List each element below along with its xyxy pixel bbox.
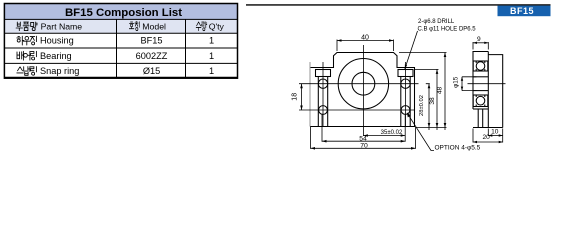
bearing top ball xyxy=(476,62,485,71)
table row line 1 xyxy=(4,18,237,20)
side plate top and right edge xyxy=(488,55,502,128)
BF15 blue label box xyxy=(498,6,551,17)
svg-text:6002ZZ: 6002ZZ xyxy=(136,51,168,61)
arrows phi15 xyxy=(461,77,463,91)
svg-text:2-φ6.8 DRILL: 2-φ6.8 DRILL xyxy=(418,19,455,25)
arrows dim9 xyxy=(473,42,488,44)
dim 35 line xyxy=(363,135,405,137)
bearing top rect xyxy=(473,61,488,71)
ext tick y83.7 right xyxy=(415,83,430,85)
svg-text:48: 48 xyxy=(436,87,443,95)
bore bottom edge xyxy=(473,90,488,92)
left slot boss rect xyxy=(316,70,331,77)
svg-text:Snap ring: Snap ring xyxy=(40,66,79,76)
svg-text:1: 1 xyxy=(209,66,214,76)
dim 40 line xyxy=(337,40,394,42)
svg-text:28±0.02: 28±0.02 xyxy=(419,95,425,116)
table row line 4 xyxy=(4,62,237,64)
arrows dim48 xyxy=(444,53,447,128)
svg-text:Ø15: Ø15 xyxy=(143,66,160,76)
left lower option hole xyxy=(319,106,328,115)
svg-text:BF15: BF15 xyxy=(510,6,534,16)
table bottom border extra xyxy=(4,76,237,78)
right lower option hole xyxy=(401,106,410,115)
dim 48 line xyxy=(444,53,446,131)
dim 10 line xyxy=(488,135,502,137)
svg-text:C.B φ11 HOLE DP6.5: C.B φ11 HOLE DP6.5 xyxy=(418,27,477,33)
bearing bottom rect xyxy=(473,95,488,107)
dim 20 line xyxy=(473,141,503,143)
arrows dim35 xyxy=(363,134,405,137)
ext tick y69.4 right xyxy=(415,68,439,70)
bore inner circle xyxy=(352,72,375,95)
side arrowheads xyxy=(461,42,503,144)
ext line x405.2 down xyxy=(404,115,406,142)
ext line x415.5 down xyxy=(415,127,417,149)
ext line x322 down xyxy=(321,115,323,142)
hangul 스냅링 (row3) xyxy=(17,67,37,76)
dim 9 line xyxy=(473,42,488,44)
dim 18 line xyxy=(301,84,303,110)
svg-text:10: 10 xyxy=(491,128,499,135)
svg-text:BF15 Composion List: BF15 Composion List xyxy=(65,7,182,19)
svg-text:Q'ty: Q'ty xyxy=(209,22,225,32)
arrowheads front dims xyxy=(300,39,446,149)
side centerline xyxy=(468,83,506,85)
dim 70 line xyxy=(311,147,416,149)
svg-text:9: 9 xyxy=(477,36,481,43)
side plate boundary vertical xyxy=(487,52,489,128)
hangul 부품명 (header col1) xyxy=(16,22,37,31)
arrows dim38 xyxy=(436,69,439,127)
svg-text:70: 70 xyxy=(360,143,368,150)
right upper hole xyxy=(401,79,410,88)
ext tick bottom right xyxy=(417,127,447,129)
bore top edge xyxy=(473,76,488,78)
boss bottom line xyxy=(473,108,488,110)
svg-text:BF15: BF15 xyxy=(141,36,163,46)
option leader xyxy=(407,113,434,151)
arrows dim20 xyxy=(473,141,503,143)
svg-text:Model: Model xyxy=(142,22,166,32)
svg-text:Bearing: Bearing xyxy=(40,51,72,61)
arrows dim18 xyxy=(300,84,303,110)
bearing top races xyxy=(476,61,485,71)
hangul 하우징 (row1) xyxy=(17,36,37,45)
ext line x310.5 down xyxy=(310,127,312,149)
ext tick y52.5 right xyxy=(399,52,447,54)
right slot boss rect xyxy=(398,70,413,77)
dim phi15 line xyxy=(461,77,463,91)
svg-text:φ15: φ15 xyxy=(452,76,459,88)
arrows dim54 xyxy=(322,140,405,143)
svg-text:1: 1 xyxy=(209,51,214,61)
table title row background xyxy=(4,4,237,20)
side boss left and top edge xyxy=(473,52,488,110)
drill note leader xyxy=(405,31,418,69)
table row line 3 xyxy=(4,47,237,49)
dim phi15 ticks xyxy=(462,77,477,91)
arrows dim28 xyxy=(428,84,431,128)
horizontal centerline upper xyxy=(299,83,414,85)
table column line 1 xyxy=(116,19,118,78)
svg-text:Housing: Housing xyxy=(40,36,74,46)
left upper hole xyxy=(318,79,327,88)
dim 40 extension lines xyxy=(337,40,394,52)
side bottom edge xyxy=(473,127,503,129)
arrow option leader xyxy=(407,113,411,118)
dim 28 line xyxy=(428,84,430,130)
hangul 수량 (header col3) xyxy=(196,22,207,31)
horizontal centerline lower holes xyxy=(299,109,414,111)
right slot centerline xyxy=(405,62,407,127)
arrows dim70 xyxy=(311,147,416,150)
svg-text:18: 18 xyxy=(292,93,299,101)
left slot walls xyxy=(318,77,327,127)
arrow drill leader xyxy=(405,64,407,69)
svg-text:35±0.02: 35±0.02 xyxy=(381,130,403,136)
table header row background xyxy=(4,19,237,33)
housing outline (top and right, bottom) xyxy=(310,53,415,127)
arrows dim40 xyxy=(337,39,394,42)
dim 54 line xyxy=(322,140,405,142)
svg-text:OPTION 4-φ5.5: OPTION 4-φ5.5 xyxy=(435,145,481,152)
hangul 호칭 (header col2) xyxy=(129,22,139,31)
dim 9 ext xyxy=(473,42,488,50)
svg-text:38: 38 xyxy=(429,97,436,105)
svg-text:Part Name: Part Name xyxy=(41,22,83,32)
housing left edge (gray) xyxy=(309,62,311,127)
left slot centerline xyxy=(322,62,324,127)
table row line 2 xyxy=(4,32,237,34)
bearing bottom races xyxy=(476,95,485,107)
table BF15 composition list xyxy=(4,4,237,79)
svg-text:1: 1 xyxy=(209,36,214,46)
arrows dim10 xyxy=(488,134,502,136)
dim 20 ext xyxy=(473,129,503,143)
hangul 베어링 (row2) xyxy=(17,51,36,60)
bore outer circle xyxy=(338,58,388,108)
table outer border xyxy=(4,4,237,79)
svg-text:54: 54 xyxy=(359,135,367,142)
dim 38 line xyxy=(436,69,438,130)
vertical centerline main xyxy=(362,45,364,136)
base inner verticals xyxy=(478,109,483,128)
top horizontal rule xyxy=(246,4,551,6)
svg-text:20: 20 xyxy=(483,134,491,141)
table column line 2 xyxy=(185,19,187,78)
bearing bottom ball xyxy=(476,96,485,105)
right slot walls xyxy=(401,77,410,127)
dim 10 ext xyxy=(488,129,502,137)
svg-text:40: 40 xyxy=(361,34,369,41)
